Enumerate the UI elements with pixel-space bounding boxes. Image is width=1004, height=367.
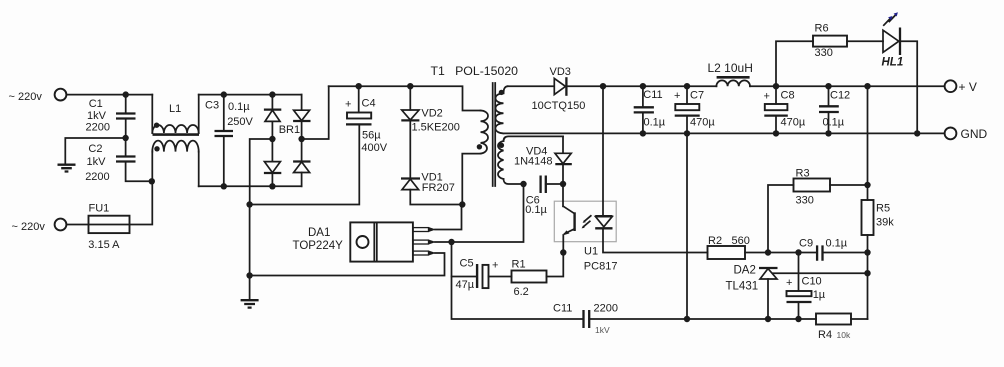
inductor L2 10uH <box>708 61 945 86</box>
node C9 right <box>864 249 870 255</box>
terminal AC input 1 (~220v top) <box>9 89 67 104</box>
svg-text:C9: C9 <box>799 238 813 250</box>
optocoupler U1 PC817 <box>554 184 617 273</box>
svg-text:T1 POL-15020: T1 POL-15020 <box>431 64 519 78</box>
wire opto LED cathode to R2 <box>603 229 708 253</box>
svg-text:330: 330 <box>815 47 833 59</box>
svg-text:0.1µ: 0.1µ <box>644 116 666 128</box>
node VD2 top <box>407 83 413 89</box>
node C1-C2 junction <box>122 135 128 141</box>
capacitor C12 0.1u <box>819 86 850 133</box>
wire to earth ground <box>65 138 125 164</box>
svg-text:470µ: 470µ <box>690 117 715 129</box>
diode VD4 1N4148 <box>514 136 572 184</box>
capacitor C7 470u <box>674 86 715 133</box>
capacitor C9 0.1u <box>768 238 868 261</box>
svg-text:R1: R1 <box>512 259 526 271</box>
node HL1 return on GND rail <box>914 130 920 136</box>
ground (earth) left <box>58 165 76 172</box>
node TL431 anode bottom <box>765 316 771 322</box>
svg-text:BR1: BR1 <box>279 124 300 136</box>
wire AC1 rail from terminal to L1 <box>66 94 152 96</box>
svg-text:~ 220v: ~ 220v <box>12 221 46 233</box>
terminal GND <box>945 127 988 141</box>
resistor R3 330 <box>768 168 868 253</box>
svg-text:C2: C2 <box>88 143 102 155</box>
svg-text:+: + <box>492 260 498 272</box>
svg-text:0.1µ: 0.1µ <box>826 238 848 250</box>
diode VD1 FR207 <box>401 171 462 204</box>
wire control node down to Y-cap rail <box>452 242 584 319</box>
svg-text:+: + <box>345 99 351 111</box>
transformer T1 POL-15020 <box>431 64 564 205</box>
capacitor C1 <box>86 95 136 138</box>
wire C7 node drop to secondary ground rail <box>686 133 688 319</box>
svg-text:1.5KE200: 1.5KE200 <box>412 121 460 133</box>
ground primary <box>241 276 259 308</box>
svg-text:R4: R4 <box>818 329 832 341</box>
svg-text:DA1: DA1 <box>308 227 330 239</box>
svg-text:R2: R2 <box>708 235 722 247</box>
svg-text:0.1µ: 0.1µ <box>823 117 845 129</box>
capacitor C10 1u <box>786 253 826 320</box>
bridge rectifier BR1 <box>264 95 311 187</box>
wire AC2 rail L1 to bridge <box>199 185 302 187</box>
shunt regulator DA2 TL431 <box>726 265 868 320</box>
inductor L1 (common-mode choke) <box>152 95 199 187</box>
node VD4 bottom / collector <box>560 181 566 187</box>
wire control pin <box>435 241 452 243</box>
capacitor C8 470u <box>764 86 806 133</box>
svg-text:FR207: FR207 <box>422 182 455 194</box>
resistor R1 6.2 <box>512 253 564 298</box>
node drain <box>459 201 465 207</box>
svg-text:+: + <box>764 90 770 102</box>
wire drain pin <box>435 205 462 230</box>
wire BR1 minus to DC- <box>250 139 273 205</box>
svg-text:250V: 250V <box>227 116 253 128</box>
svg-text:DA2: DA2 <box>734 265 756 277</box>
svg-text:L1: L1 <box>169 103 181 115</box>
node DC- corner <box>246 201 252 207</box>
node primary ground <box>246 272 252 278</box>
svg-text:+: + <box>786 277 792 289</box>
svg-text:TL431: TL431 <box>726 281 759 293</box>
svg-text:C8: C8 <box>781 90 795 102</box>
svg-text:HL1: HL1 <box>882 56 904 68</box>
svg-text:C7: C7 <box>690 90 704 102</box>
node REF junction <box>864 270 870 276</box>
capacitor C6 0.1u <box>525 176 563 217</box>
svg-text:C1: C1 <box>89 98 103 110</box>
svg-text:3.15 A: 3.15 A <box>88 239 120 251</box>
svg-text:560: 560 <box>732 235 750 247</box>
diode VD3 10CTQ150 <box>508 66 717 112</box>
node C6 left <box>520 181 526 187</box>
wire C5 branch <box>452 276 477 278</box>
svg-text:R6: R6 <box>815 23 829 35</box>
svg-text:U1: U1 <box>584 246 598 258</box>
svg-text:R3: R3 <box>796 168 810 180</box>
svg-text:39k: 39k <box>876 217 894 229</box>
node C4 top <box>356 83 362 89</box>
node BR1 plus <box>298 136 304 142</box>
capacitor C11 2200 1kV (Y-cap) <box>553 303 816 336</box>
svg-text:47µ: 47µ <box>456 279 475 291</box>
wire source pin to primary ground <box>250 253 445 276</box>
svg-text:FU1: FU1 <box>89 203 110 215</box>
svg-text:C12: C12 <box>830 90 850 102</box>
node R2/R3/TL431 <box>765 249 771 255</box>
svg-text:R5: R5 <box>876 203 890 215</box>
svg-text:1kV: 1kV <box>595 325 610 335</box>
svg-text:~ 220v: ~ 220v <box>9 91 43 103</box>
wire DC- down <box>249 205 251 276</box>
node C3 top <box>221 91 227 97</box>
node C10 bottom <box>795 316 801 322</box>
svg-text:C3: C3 <box>205 100 219 112</box>
svg-text:L2 10uH: L2 10uH <box>708 61 753 75</box>
node C1 top <box>123 91 129 97</box>
svg-text:330: 330 <box>796 195 814 207</box>
svg-text:2200: 2200 <box>85 171 109 183</box>
node emitter <box>560 249 566 255</box>
wire control node to bias row <box>452 184 524 242</box>
capacitor C11 0.1u (secondary) <box>634 86 666 133</box>
svg-text:0.1µ: 0.1µ <box>525 204 547 216</box>
node feedback tap on +V rail <box>864 83 870 89</box>
svg-text:0.1µ: 0.1µ <box>228 101 250 113</box>
node BR1 minus <box>269 136 275 142</box>
LED HL1 <box>882 12 918 132</box>
svg-text:1kV: 1kV <box>87 156 107 168</box>
capacitor C5 47u <box>456 258 512 292</box>
resistor R2 560 <box>708 235 769 259</box>
svg-text:56µ: 56µ <box>362 130 381 142</box>
IC DA1 TOP224Y <box>293 222 437 261</box>
svg-text:+ V: + V <box>959 80 977 94</box>
wire AC1 rail L1 to bridge <box>199 94 302 96</box>
fuse FU1 3.15A <box>66 181 152 251</box>
node R3 right <box>864 182 870 188</box>
node control <box>448 239 454 245</box>
node BR1 AC bottom <box>269 183 275 189</box>
svg-text:6.2: 6.2 <box>514 286 529 298</box>
svg-text:1kV: 1kV <box>87 110 107 122</box>
capacitor C3 0.1u 250V <box>205 95 254 187</box>
svg-text:TOP224Y: TOP224Y <box>293 240 344 252</box>
node LED riser top <box>600 83 606 89</box>
svg-text:10k: 10k <box>837 330 851 340</box>
wire opto LED anode riser <box>602 86 604 216</box>
resistor R4 10k <box>816 314 868 342</box>
svg-text:10CTQ150: 10CTQ150 <box>532 100 586 112</box>
svg-text:1µ: 1µ <box>813 289 826 301</box>
capacitor C2 <box>85 138 152 183</box>
svg-text:C11: C11 <box>643 89 662 101</box>
svg-text:2200: 2200 <box>86 122 110 134</box>
resistor R5 39k <box>862 200 895 319</box>
terminal AC input 2 (~220v bottom) <box>12 219 67 233</box>
wire DC+ rail <box>329 86 481 110</box>
wire GND rail (secondary) <box>504 132 945 134</box>
svg-text:470µ: 470µ <box>781 117 806 129</box>
svg-text:VD2: VD2 <box>421 108 442 120</box>
svg-text:PC817: PC817 <box>584 261 618 273</box>
svg-text:C5: C5 <box>460 258 474 270</box>
node C3 bottom <box>221 183 227 189</box>
svg-text:C4: C4 <box>362 98 376 110</box>
svg-text:C11: C11 <box>553 303 572 315</box>
wire BR1 plus up to DC+ rail <box>302 86 329 139</box>
svg-text:2200: 2200 <box>594 303 618 315</box>
svg-text:+: + <box>674 90 680 102</box>
node C9 left / C10 top <box>795 249 801 255</box>
node gnd drop bottom <box>684 316 690 322</box>
resistor R6 330 <box>776 23 883 87</box>
svg-text:C10: C10 <box>802 276 822 288</box>
terminal +V <box>945 80 977 94</box>
svg-text:GND: GND <box>961 127 988 141</box>
svg-text:VD3: VD3 <box>550 66 571 78</box>
wire feedback drop from +V <box>867 86 869 200</box>
TVS VD2 1.5KE200 <box>401 86 460 178</box>
capacitor C4 56u 400V <box>250 86 388 204</box>
svg-text:1N4148: 1N4148 <box>514 155 553 167</box>
svg-text:400V: 400V <box>361 142 387 154</box>
node BR1 AC top <box>269 91 275 97</box>
node C2/FU1/L1 junction <box>149 178 155 184</box>
